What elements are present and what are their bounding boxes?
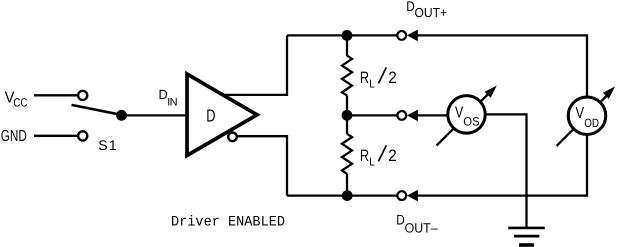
svg-text:OD: OD [584,116,599,130]
switch S1 contact (VCC throw) [78,91,87,100]
wire VOS to ground drop [485,114,527,227]
svg-text:L: L [369,79,375,91]
wire probe to VOS meter [417,114,449,116]
node switch pole junction [116,110,127,121]
terminal DOUT+ [397,31,406,40]
wire bottom bus [287,194,397,196]
svg-text:GND: GND [1,128,27,145]
meter VOD [568,97,606,135]
switch S1 contact (GND throw) [78,131,87,140]
switch S1 arm [72,105,124,115]
label VCC [5,90,28,110]
wire DOUT+ to VOD (top right) [417,35,587,97]
probe arrow DOUT+ [407,30,418,42]
label VOD [576,105,600,130]
svg-text:D: D [206,106,215,126]
wire mid node to lower resistor [346,115,348,134]
label DOUT- [396,212,438,236]
svg-text:L: L [369,157,375,169]
probe arrow into VOS [407,110,418,122]
svg-text:D: D [406,0,415,14]
label RL/2 upper [360,67,397,90]
svg-text:CC: CC [13,95,27,109]
inversion bubble on driver output [228,133,237,142]
label RL/2 lower [360,145,397,168]
svg-text:R: R [360,69,369,87]
wire resistor to bottom node [346,174,348,196]
node bottom junction [342,190,353,201]
meter VOD arrowhead [603,87,615,99]
svg-text:2: 2 [388,69,397,87]
driver D (triangle) [187,74,257,156]
wire top node to resistor [346,35,348,56]
wire DOUT- to VOD (bottom right) [417,135,587,196]
terminal VOS probe [397,111,406,120]
svg-text:OUT–: OUT– [405,220,438,235]
meter VOS arrow [437,90,493,145]
svg-text:D: D [396,212,405,228]
wire driver inverting output to bottom bus [237,136,287,195]
node mid junction [342,110,353,121]
wire top bus [287,34,397,36]
probe arrow DOUT- [407,190,418,202]
svg-text:IN: IN [167,96,177,108]
svg-text:V: V [576,105,585,122]
svg-text:OS: OS [463,114,479,128]
ground [508,228,545,245]
wire resistor to mid node [346,96,348,116]
label DOUT+ [406,0,447,20]
svg-text:OUT+: OUT+ [415,5,448,20]
svg-text:Driver ENABLED: Driver ENABLED [171,214,285,230]
wire GND lead [34,135,77,137]
node top junction [342,30,353,41]
label DIN [159,87,178,108]
meter VOD arrow [557,92,611,146]
resistor RL/2 upper [342,56,352,96]
wire driver non-inverting output to top bus [222,35,287,95]
wire VCC lead [34,94,77,96]
wire DIN input [122,114,188,116]
svg-text:2: 2 [388,147,397,165]
svg-text:V: V [455,104,463,121]
wire mid node to VOS terminal [347,114,397,116]
meter VOS arrowhead [485,86,497,98]
svg-text:R: R [360,147,369,165]
meter VOS [448,96,486,133]
label VOS [455,104,480,128]
terminal DOUT- [397,191,406,200]
resistor RL/2 lower [342,134,352,174]
